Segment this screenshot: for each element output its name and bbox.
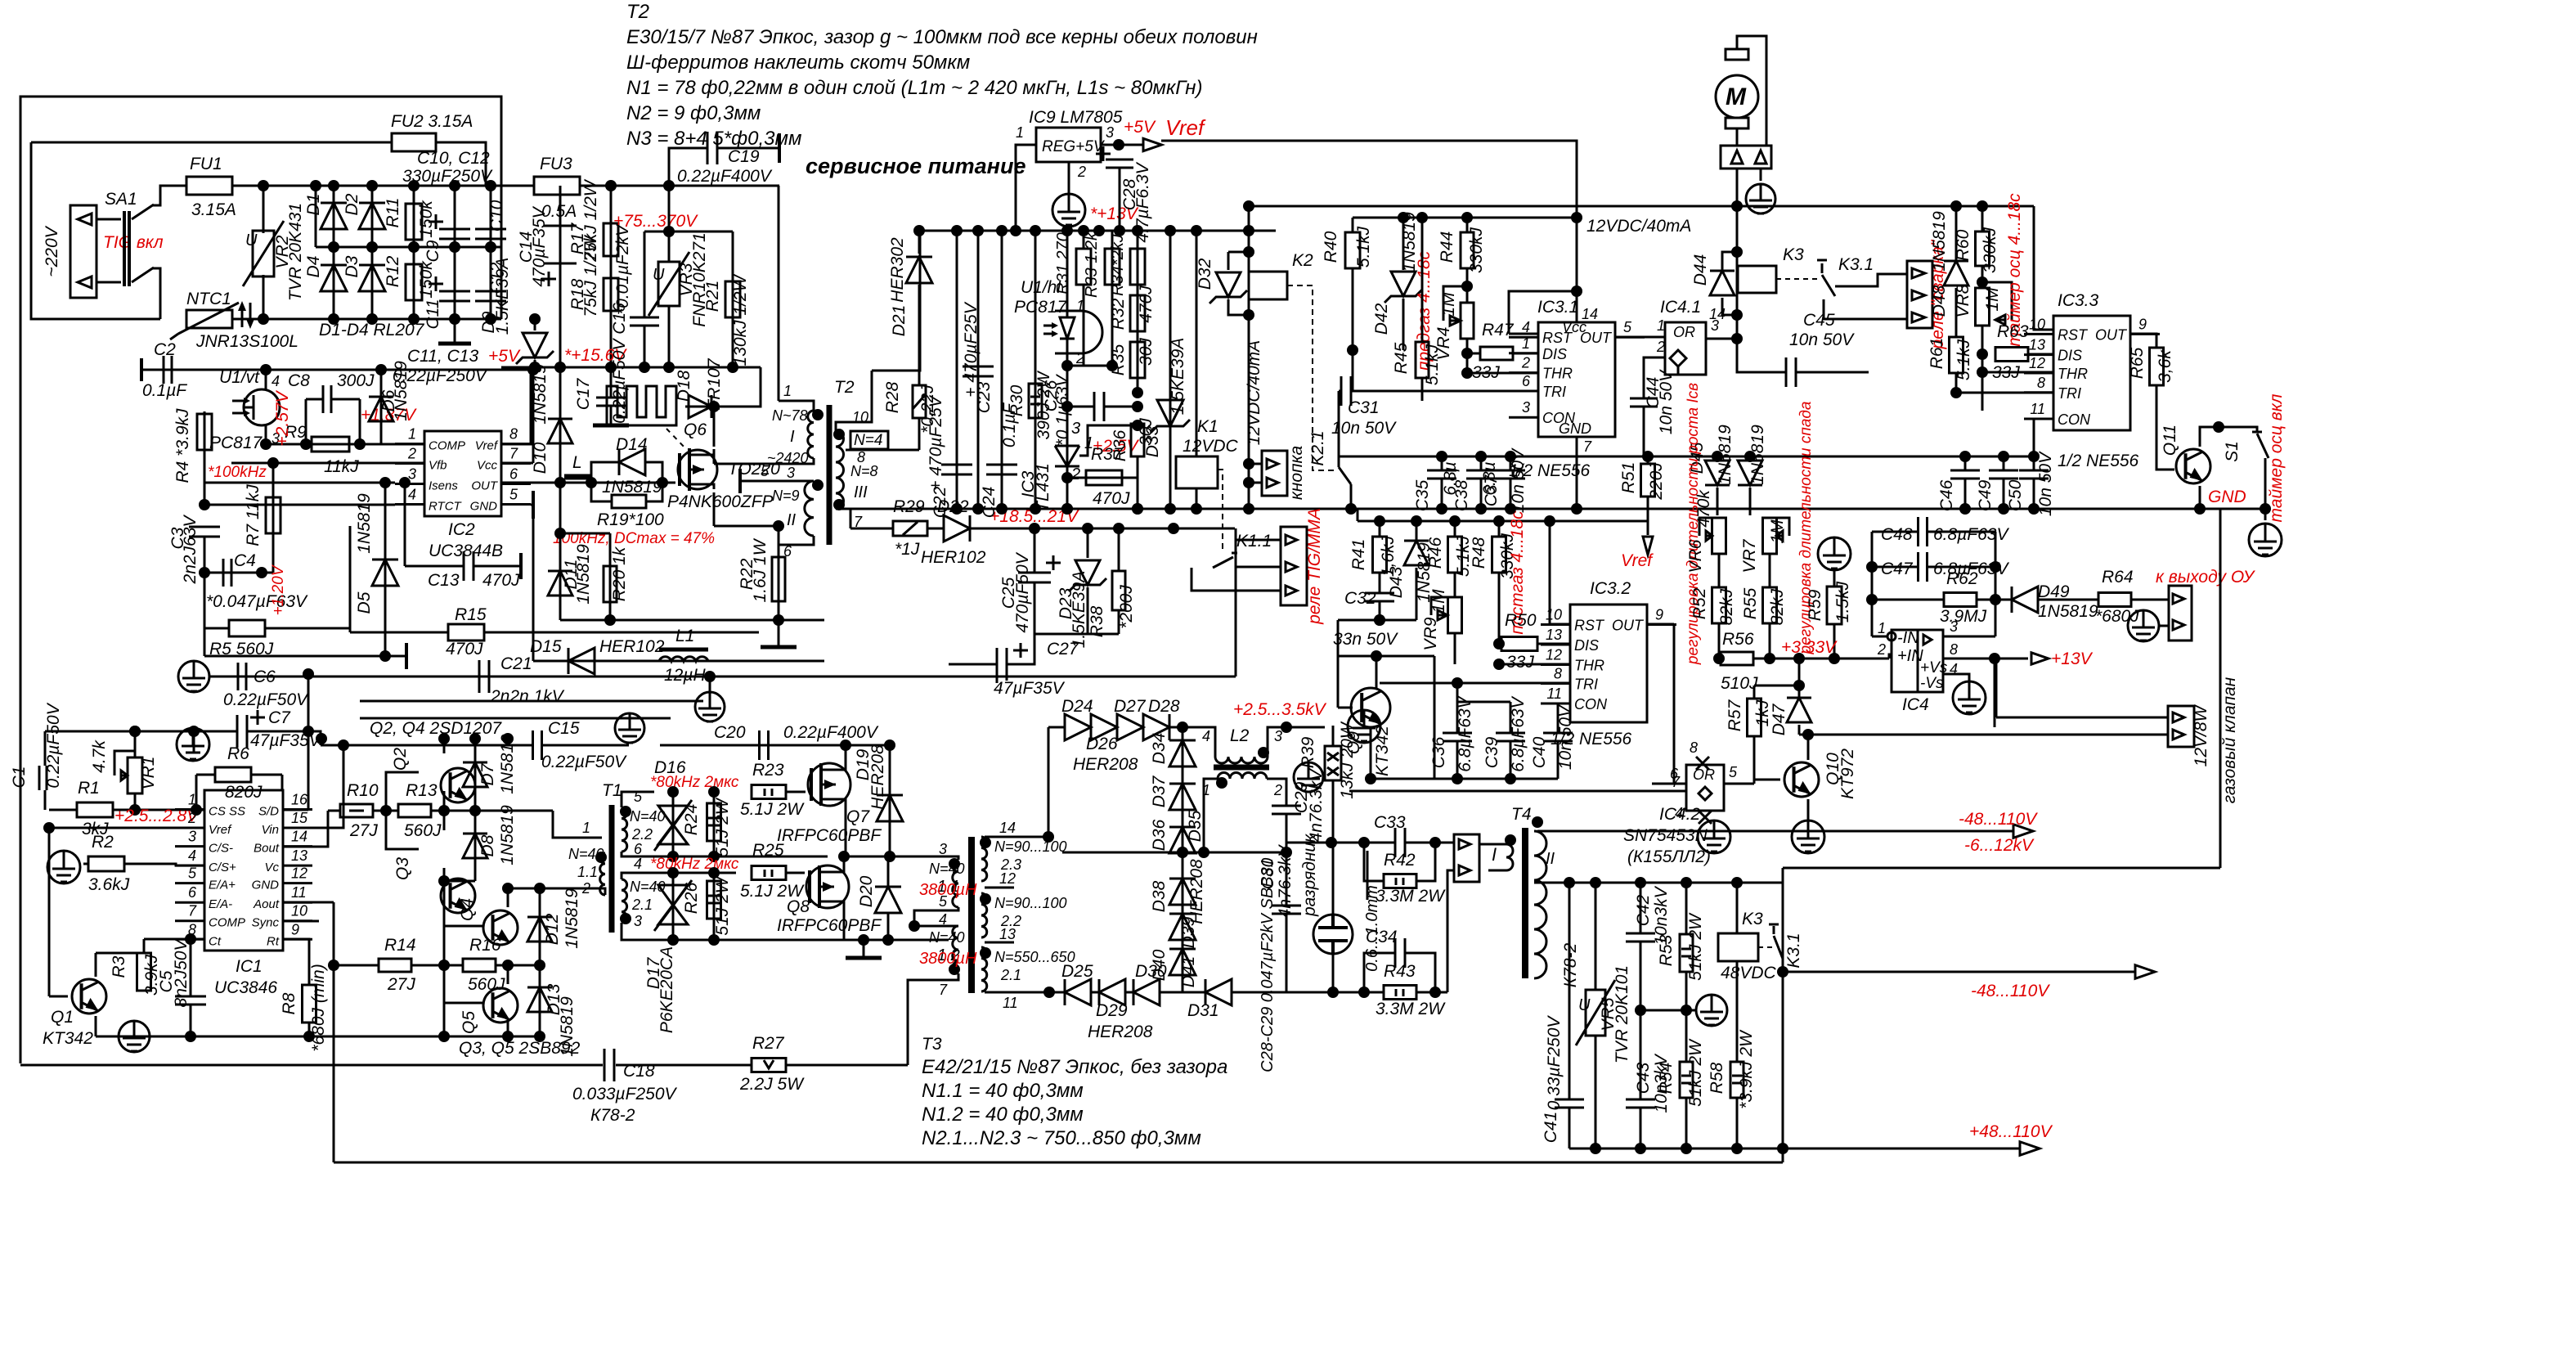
wire GND down: [532, 519, 535, 661]
transformer T3 core: [968, 837, 975, 993]
wire T2 pin1 riser: [778, 186, 780, 401]
resistor R63: [1995, 348, 2028, 362]
svg-text:3800µH: 3800µH: [919, 950, 977, 968]
zener D33: [1157, 400, 1183, 426]
svg-text:C47: C47: [1881, 560, 1914, 578]
junction i14: [502, 883, 514, 894]
wire R20 col: [609, 533, 612, 620]
svg-text:газовый клапан: газовый клапан: [2220, 676, 2239, 803]
capacitor C47: [1919, 552, 1928, 582]
svg-text:разрядник: разрядник: [1300, 834, 1319, 917]
svg-text:TIG вкл: TIG вкл: [103, 233, 164, 252]
junction rail622: [996, 503, 1008, 515]
wire row952: [1371, 778, 1558, 780]
svg-text:C2: C2: [154, 340, 176, 359]
wire Q9 base: [1338, 707, 1353, 709]
IC3 TL431: [1055, 446, 1079, 466]
svg-text:~220V: ~220V: [43, 225, 61, 276]
svg-text:N=9: N=9: [772, 488, 800, 504]
svg-text:1: 1: [783, 383, 792, 399]
resistor R27: [752, 1059, 786, 1072]
wire C40 bot: [1557, 742, 1560, 779]
L2 dot bottom: [1216, 777, 1227, 789]
transformer T2 core: [827, 405, 832, 545]
wire C19 lead: [718, 147, 779, 150]
junction h12: [1436, 503, 1447, 515]
junction k5: [1635, 1005, 1646, 1016]
svg-text:THR: THR: [1542, 366, 1573, 382]
junction i20: [667, 851, 679, 862]
wire D42 down: [1402, 299, 1405, 350]
wire VR3 bot: [668, 306, 671, 367]
wire R6 wires: [196, 774, 215, 776]
svg-text:D28: D28: [1148, 697, 1180, 716]
svg-text:к выходу ОУ: к выходу ОУ: [2156, 568, 2256, 587]
svg-text:E/A+: E/A+: [209, 879, 236, 892]
svg-text:8: 8: [1950, 641, 1958, 658]
junction h7: [1505, 773, 1516, 784]
wire Q3 b: [386, 811, 419, 849]
wire sec return row: [533, 660, 824, 663]
T1 dot 2.2: [620, 806, 631, 817]
svg-text:Vc: Vc: [264, 861, 279, 874]
wire rail 1421: [334, 1162, 1783, 1164]
junction e18: [1132, 387, 1143, 398]
capacitor C48: [1919, 517, 1928, 546]
capacitor C3: [189, 527, 220, 537]
svg-text:6: 6: [1522, 373, 1531, 389]
junction f9: [1461, 367, 1473, 379]
junction h22: [1990, 561, 2001, 573]
ground C21: [695, 692, 725, 721]
wire +IN line b: [1753, 658, 1889, 660]
diode D28: [1143, 714, 1169, 740]
svg-text:12VDC/40mA: 12VDC/40mA: [1245, 340, 1263, 445]
junction i4: [129, 804, 141, 816]
svg-text:R45: R45: [1392, 342, 1411, 374]
svg-text:D15: D15: [530, 637, 562, 656]
svg-text:1/2 NE556: 1/2 NE556: [2058, 452, 2139, 470]
junction g11: [1998, 451, 2009, 462]
junction a15: [408, 180, 420, 191]
svg-text:C42: C42: [1634, 894, 1653, 926]
terminal bar C13r: [519, 553, 523, 579]
ground IC9: [1052, 194, 1085, 227]
svg-text:560J: 560J: [404, 821, 442, 840]
svg-text:M: M: [1726, 83, 1747, 110]
svg-text:IC1: IC1: [236, 957, 263, 976]
diode D30: [1133, 979, 1160, 1005]
svg-text:TVR 20K431: TVR 20K431: [286, 203, 305, 301]
wire C25 bot: [1034, 582, 1036, 634]
junction rail1079: [1635, 877, 1646, 888]
svg-text:3: 3: [1950, 618, 1958, 635]
svg-text:K1: K1: [1197, 417, 1218, 436]
wire K3 col: [1736, 206, 1739, 339]
wire Vcc line: [501, 462, 533, 465]
dashed link Q6: [666, 429, 687, 450]
IC IC4.2: [1686, 765, 1724, 811]
svg-text:N=40: N=40: [568, 846, 604, 862]
wire D6 col: [380, 370, 383, 444]
svg-text:Q11: Q11: [2161, 425, 2179, 456]
junction rail622: [1165, 503, 1176, 515]
svg-text:C6: C6: [254, 668, 276, 686]
svg-text:330µF250V: 330µF250V: [402, 167, 493, 186]
wire U1hl down: [1066, 353, 1069, 478]
wire S1 wire: [2219, 427, 2257, 432]
junction g8: [1998, 503, 2009, 515]
capacitor C40: [1543, 733, 1573, 741]
svg-text:Q3: Q3: [393, 857, 412, 880]
wire vert2715: [2219, 509, 2222, 868]
wire L2 in: [1183, 727, 1215, 757]
R58 eq: [1732, 1076, 1742, 1083]
svg-text:12: 12: [1546, 646, 1562, 663]
wire c7 row: [45, 730, 237, 733]
svg-text:S/D: S/D: [258, 805, 279, 819]
resistor R40: [1345, 232, 1360, 268]
junction g9: [2028, 503, 2040, 515]
wire D47 col: [1798, 685, 1801, 697]
svg-text:JNR13S100L: JNR13S100L: [195, 332, 298, 351]
IC IC2 UC3844B: [424, 431, 501, 516]
svg-text:130kJ 1/2W: 130kJ 1/2W: [731, 273, 750, 366]
svg-text:470µF35V: 470µF35V: [530, 205, 549, 286]
resistor R44: [1461, 232, 1474, 268]
junction c7: [663, 362, 675, 373]
junction a9: [366, 313, 378, 325]
bidir zener D16: [658, 806, 688, 844]
transformer T2 winding III: [836, 431, 844, 509]
capacitor C42: [1626, 933, 1655, 942]
wire R62 row: [1872, 599, 1945, 601]
wire K1.1 wire3: [1235, 566, 1281, 569]
wire Q7 d: [845, 745, 847, 766]
wire Q7 s: [845, 802, 847, 856]
wire Q4 b: [444, 926, 482, 965]
relay K2: [1249, 272, 1287, 299]
svg-text:5: 5: [939, 893, 948, 910]
fuse FU1: [186, 177, 232, 195]
ground R39: [1294, 762, 1323, 792]
svg-text:D26: D26: [1086, 735, 1118, 753]
wire C9 col: [454, 186, 456, 344]
T2 pin10 dot: [833, 429, 845, 440]
diode D3: [359, 265, 385, 291]
wire R33 bot: [1111, 285, 1114, 366]
wire T3 pin11: [985, 991, 1049, 994]
svg-text:14: 14: [291, 829, 307, 845]
wire IC3.1 gnd: [1576, 437, 1578, 509]
wire R41 col: [1379, 521, 1381, 537]
wire T3 pin13: [985, 942, 1014, 944]
svg-text:D7: D7: [478, 762, 497, 785]
svg-text:D38: D38: [1150, 880, 1169, 912]
diode D34: [1169, 740, 1196, 766]
svg-text:HER208: HER208: [868, 744, 887, 810]
wire vcc rail2: [1353, 217, 1577, 219]
wire IC4.1 out: [1706, 338, 1737, 340]
R23 eq: [765, 789, 772, 796]
wire R59 top: [1833, 570, 1836, 587]
capacitor C45: [1786, 357, 1796, 387]
connector реле TIG: [1281, 527, 1307, 605]
svg-text:1.5KE39A: 1.5KE39A: [1070, 571, 1088, 649]
capacitor C11: [439, 291, 470, 301]
svg-text:C32: C32: [1344, 589, 1376, 608]
wire C3 down: [204, 537, 206, 628]
svg-text:L1: L1: [675, 627, 694, 645]
wire R45 col: [1421, 218, 1424, 342]
ground R2: [47, 851, 80, 883]
wire D43 col: [1416, 521, 1418, 540]
wire K2 down2: [1248, 372, 1250, 509]
wire C5 bot: [190, 1005, 192, 1036]
junction b10: [199, 567, 210, 578]
junction i32: [884, 739, 895, 751]
IC IC1 UC3846: [204, 790, 283, 951]
wire motor down: [1736, 169, 1739, 206]
resistor R33: [1105, 249, 1120, 285]
wire T4 I wire2: [1488, 870, 1506, 872]
svg-text:N2.1...N2.3 ~ 750...850 ф0,3мм: N2.1...N2.3 ~ 750...850 ф0,3мм: [922, 1127, 1201, 1149]
dashed K1.1: [1218, 470, 1223, 553]
capacitor C39: [1496, 733, 1525, 741]
terminal C2: [140, 358, 143, 381]
junction d5: [704, 671, 716, 682]
svg-text:HER302: HER302: [888, 237, 907, 303]
IC IC3.3 NE556: [2053, 316, 2130, 430]
svg-text:33J: 33J: [1506, 653, 1534, 672]
resistor R16: [463, 959, 496, 972]
junction a11: [449, 241, 460, 253]
svg-text:C43: C43: [1634, 1062, 1653, 1094]
wire SD riser: [307, 674, 310, 810]
junction k2d: [1429, 837, 1441, 848]
wire Sync: [283, 920, 319, 923]
svg-text:HER102: HER102: [599, 637, 665, 656]
svg-text:HER208: HER208: [1073, 755, 1138, 774]
wire Q2 e2: [443, 791, 446, 811]
junction b8: [199, 499, 210, 510]
svg-text:R53: R53: [1657, 934, 1676, 966]
fuse FU2: [392, 133, 436, 151]
wire IC4 pin1: [1872, 636, 1887, 638]
wire GND pin5: [531, 504, 533, 506]
svg-text:Q3, Q5 2SB892: Q3, Q5 2SB892: [459, 1039, 581, 1058]
svg-text:DIS: DIS: [1542, 346, 1567, 362]
junction h10: [1475, 451, 1487, 462]
svg-text:27J: 27J: [349, 821, 378, 840]
resistor R34: [1130, 249, 1145, 285]
svg-text:51kJ 2W: 51kJ 2W: [1686, 1038, 1705, 1107]
ground K3 cluster: [1696, 995, 1727, 1026]
svg-text:TRI: TRI: [1574, 676, 1598, 692]
wire Q6 drain: [713, 407, 716, 447]
svg-text:1N5819: 1N5819: [1930, 211, 1949, 272]
junction c16: [554, 528, 566, 539]
resistor R21: [725, 281, 740, 317]
junction d2: [1168, 523, 1179, 534]
wire 13V rail up: [872, 231, 920, 371]
zener D32: [1216, 272, 1241, 297]
resistor R39: [1325, 746, 1341, 780]
svg-text:N=40: N=40: [929, 861, 965, 877]
wire U1hl col: [1066, 231, 1069, 317]
svg-text:R54: R54: [1657, 1063, 1676, 1095]
svg-text:C7: C7: [268, 708, 291, 727]
svg-text:VR9: VR9: [1421, 617, 1440, 650]
wire DIS wire: [1467, 353, 1479, 355]
wire T3 pin5: [914, 907, 958, 926]
wire OUT line: [501, 482, 675, 484]
resistor R42: [1384, 874, 1416, 888]
wire D11 col: [559, 483, 562, 620]
wire K3.1 wire1: [1835, 274, 1907, 286]
junction e7: [1093, 225, 1105, 236]
wire R50 out: [1537, 643, 1570, 645]
junction c14: [657, 477, 668, 488]
junction h8: [1374, 614, 1385, 626]
ground C6: [178, 661, 209, 692]
wire R48 col: [1498, 521, 1501, 537]
junction i18: [438, 1031, 450, 1042]
arrow -48V a: [2013, 825, 2033, 838]
wire C19 up: [669, 148, 707, 186]
arrows NTC: [242, 303, 250, 327]
wire bottom rail2: [1569, 1148, 1783, 1150]
switch K3.1 mid: [1817, 260, 1835, 296]
wire R22 col: [778, 526, 780, 620]
svg-text:+5V: +5V: [1124, 118, 1156, 137]
wire D34 col: [1182, 727, 1184, 852]
wire R42 par2: [1416, 843, 1435, 881]
wire border top-left: [20, 97, 501, 1063]
wire SA1 to FU1: [152, 186, 186, 205]
relay K3: [1738, 266, 1776, 293]
svg-text:R46: R46: [1426, 537, 1445, 569]
svg-text:N=8: N=8: [850, 463, 878, 479]
wire C30 down: [1286, 915, 1288, 992]
wire C1 down: [44, 790, 47, 810]
svg-text:R55: R55: [1741, 587, 1760, 619]
arrow +13V: [2031, 653, 2049, 664]
svg-text:C9: C9: [424, 240, 442, 262]
varistor VR3: [658, 262, 680, 306]
wire +18V drop: [1235, 528, 1237, 676]
svg-text:D42: D42: [1372, 303, 1391, 335]
wire VR4 down: [1466, 339, 1469, 370]
svg-text:Q1: Q1: [51, 1008, 74, 1027]
wire D11 bottom row: [560, 619, 824, 622]
svg-text:1M: 1M: [1429, 589, 1448, 614]
junction e12: [1243, 225, 1254, 236]
dashed K3.1b: [1758, 946, 1776, 948]
svg-text:C28-C29 0.047µF2kV SBB81: C28-C29 0.047µF2kV SBB81: [1259, 858, 1277, 1072]
junction i9b: [469, 733, 481, 744]
svg-text:THR: THR: [2058, 366, 2088, 382]
wire C8 lead2: [331, 398, 360, 401]
wire C3 node down: [204, 628, 206, 656]
junction c9: [529, 362, 541, 373]
svg-text:CS SS: CS SS: [209, 805, 245, 819]
svg-text:C36: C36: [1429, 736, 1448, 768]
wire ic32 out v: [1673, 624, 1676, 784]
svg-text:*3.9kJ 2W: *3.9kJ 2W: [1737, 1029, 1756, 1109]
junction h17: [1744, 451, 1756, 462]
svg-text:D4: D4: [304, 256, 323, 278]
svg-text:N=90...100: N=90...100: [994, 895, 1067, 911]
junction ic31g: [1571, 503, 1582, 515]
junction rail622: [1243, 503, 1254, 515]
svg-text:Q5: Q5: [460, 1011, 478, 1034]
wire T1 pin6b: [622, 852, 828, 856]
wire C36 row top: [1457, 701, 1510, 703]
svg-text:-48...110V: -48...110V: [1971, 982, 2050, 1000]
ground Q9: [1348, 710, 1380, 743]
wire R38 top: [1118, 528, 1120, 571]
svg-text:4.7k: 4.7k: [90, 739, 109, 773]
svg-text:48VDC: 48VDC: [1721, 964, 1777, 982]
svg-text:*100kHz: *100kHz: [208, 464, 267, 481]
resistor R7: [266, 497, 280, 533]
diode D19: [877, 795, 903, 821]
junction k2: [1326, 837, 1337, 848]
svg-text:R2: R2: [92, 833, 114, 852]
junction rail1079: [1681, 877, 1692, 888]
wire R47 out: [1513, 353, 1538, 355]
zener D9: [523, 333, 547, 357]
junction j8: [1281, 721, 1292, 733]
wire rail 857: [360, 700, 703, 703]
svg-text:R8: R8: [280, 992, 298, 1014]
svg-text:3: 3: [1071, 420, 1080, 438]
junction e23: [1243, 246, 1254, 258]
junction e5b: [1030, 225, 1041, 236]
wire Vcc up: [532, 370, 535, 463]
svg-text:IC4: IC4: [1902, 695, 1929, 714]
wire bottom rail: [232, 318, 501, 321]
resistor R17: [604, 223, 618, 256]
capacitor C19: [707, 132, 717, 164]
svg-text:U: U: [653, 266, 665, 284]
junction h6: [1452, 773, 1463, 784]
connector кнопка: [1262, 451, 1287, 496]
junction rail622: [1061, 503, 1073, 515]
wire D13 col: [539, 965, 541, 1036]
wire +5V line: [141, 369, 531, 371]
svg-text:0.33µF250V: 0.33µF250V: [1545, 1015, 1564, 1111]
wire T2 pin3: [714, 458, 814, 464]
junction c5: [605, 362, 617, 373]
wire Q6 source: [713, 492, 716, 526]
svg-text:таймер осц вкл: таймер осц вкл: [2267, 393, 2286, 522]
svg-text:Q4: Q4: [458, 898, 477, 921]
svg-text:1: 1: [1522, 335, 1530, 352]
ground bar R22: [761, 645, 797, 650]
diode D40: [1169, 949, 1196, 975]
svg-text:R30: R30: [1008, 384, 1026, 416]
T2 pin7 dot: [833, 499, 845, 510]
junction h21: [1866, 561, 1878, 573]
svg-text:16: 16: [291, 792, 308, 808]
junction g13: [2213, 421, 2224, 433]
wire R40 col: [1352, 218, 1354, 232]
junction a8: [328, 313, 339, 325]
svg-text:HER208: HER208: [1187, 859, 1206, 924]
wire Q9 base riser: [1337, 620, 1340, 708]
